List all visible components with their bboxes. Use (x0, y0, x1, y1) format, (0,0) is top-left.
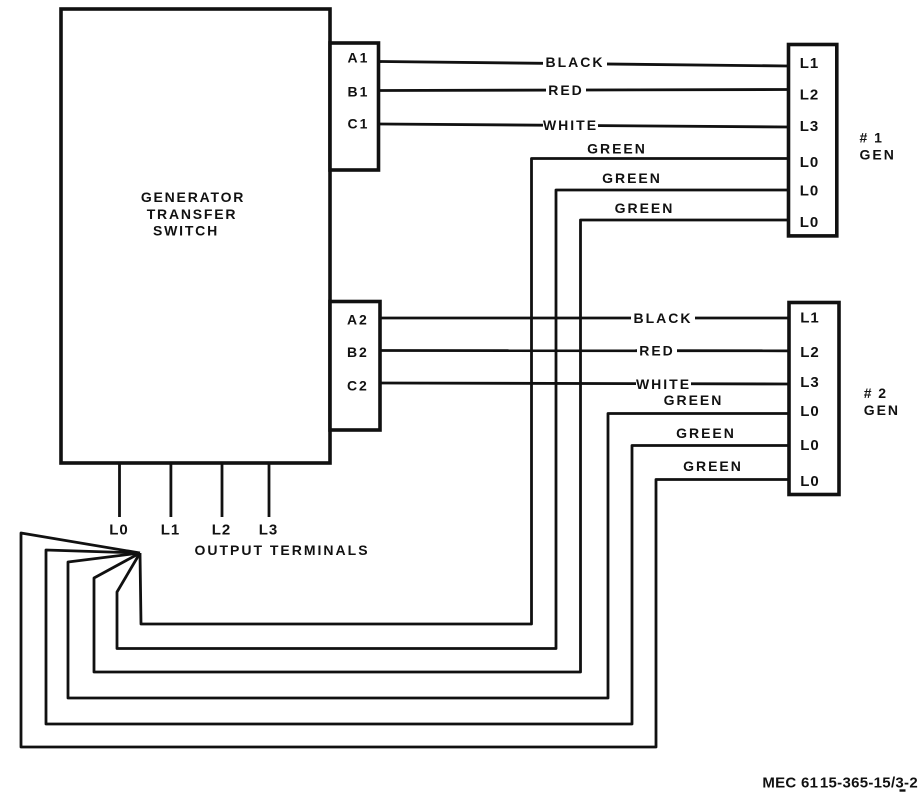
svg-text:C2: C2 (347, 378, 369, 394)
svg-text:GEN: GEN (860, 146, 896, 162)
svg-text:L3: L3 (800, 118, 820, 135)
svg-text:L2: L2 (800, 87, 820, 104)
svg-text:L2: L2 (800, 344, 820, 361)
svg-text:L1: L1 (800, 55, 820, 72)
svg-text:L0: L0 (109, 522, 129, 539)
svg-text:RED: RED (639, 343, 675, 359)
svg-text:L2: L2 (212, 522, 232, 539)
svg-text:L0: L0 (800, 473, 820, 490)
svg-text:L0: L0 (800, 154, 820, 171)
svg-text:A2: A2 (347, 311, 369, 327)
svg-text:GREEN: GREEN (602, 170, 662, 186)
svg-text:WHITE: WHITE (543, 117, 598, 133)
svg-text:L3: L3 (259, 522, 279, 539)
svg-text:B2: B2 (347, 344, 369, 360)
svg-text:L1: L1 (800, 310, 820, 327)
svg-text:L3: L3 (800, 374, 820, 391)
svg-text:C1: C1 (348, 116, 370, 132)
svg-text:GREEN: GREEN (676, 425, 736, 441)
svg-text:RED: RED (548, 82, 584, 98)
svg-text:GREEN: GREEN (615, 200, 675, 216)
svg-text:OUTPUT TERMINALS: OUTPUT TERMINALS (194, 542, 369, 558)
svg-text:BLACK: BLACK (546, 54, 605, 70)
svg-text:TRANSFER: TRANSFER (147, 206, 238, 222)
svg-text:L0: L0 (800, 214, 820, 231)
svg-text:GEN: GEN (864, 402, 900, 418)
svg-text:GREEN: GREEN (664, 392, 724, 408)
svg-text:B1: B1 (348, 84, 370, 100)
svg-text:L0: L0 (800, 403, 820, 420)
svg-text:L0: L0 (800, 437, 820, 454)
svg-text:GREEN: GREEN (683, 458, 743, 474)
svg-text:BLACK: BLACK (634, 310, 693, 326)
svg-text:MEC 61 15-365-15/3-2: MEC 61 15-365-15/3-2 (762, 775, 918, 792)
svg-text:GENERATOR: GENERATOR (141, 189, 245, 205)
svg-text:# 1: # 1 (860, 130, 884, 146)
svg-text:# 2: # 2 (864, 385, 888, 401)
svg-text:GREEN: GREEN (587, 141, 647, 157)
svg-text:L0: L0 (800, 183, 820, 200)
svg-text:A1: A1 (348, 50, 370, 66)
svg-text:L1: L1 (161, 522, 181, 539)
svg-text:WHITE: WHITE (636, 376, 691, 392)
svg-text:SWITCH: SWITCH (153, 223, 219, 239)
